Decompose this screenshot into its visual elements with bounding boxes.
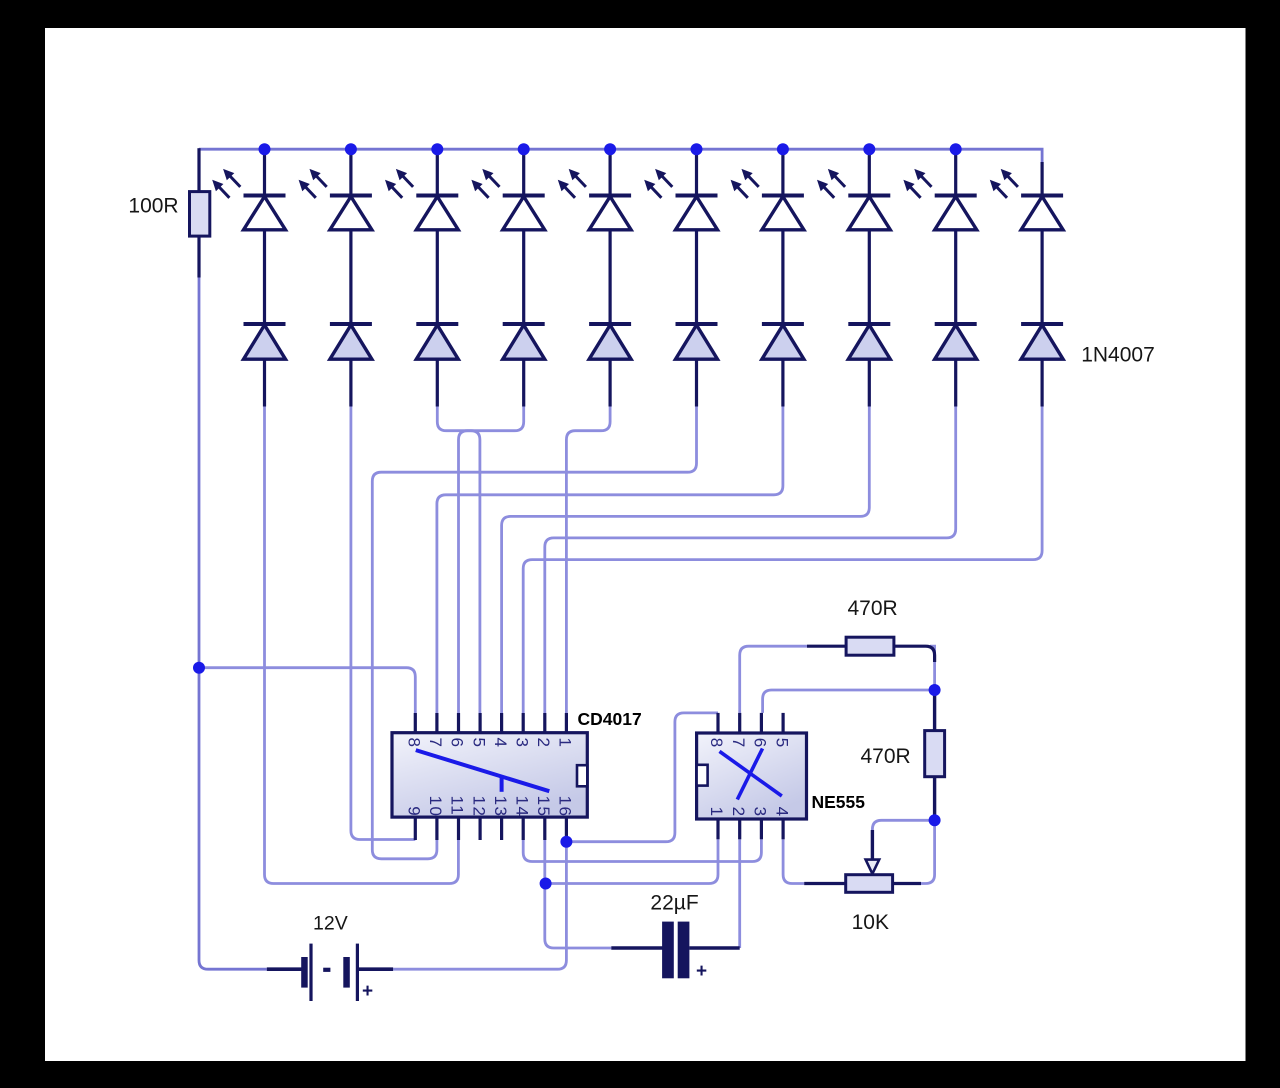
CD4017 pin 14 (522, 817, 525, 840)
battery BT1 12V (301, 944, 359, 1001)
wire D7 cathode to CD4017 pin 7 (437, 406, 783, 713)
CD4017 pin 15 (543, 817, 546, 840)
diode D4 1N4007 (503, 324, 545, 359)
svg-text:13: 13 (491, 796, 510, 818)
NE555 pin 2 (738, 819, 741, 839)
resistor R3 470R (925, 731, 945, 777)
wire R2 to node A (930, 646, 935, 690)
CD4017 pin 12 (479, 817, 482, 840)
wire pot right lead (893, 882, 921, 885)
svg-text:11: 11 (448, 796, 467, 817)
node dot 7 (777, 143, 789, 155)
wire LED4 cathode to D4 (522, 230, 525, 324)
svg-text:4: 4 (772, 807, 791, 818)
LED D1 (244, 196, 286, 230)
wire CD4017 pin 14 to NE555 pin 3 (523, 839, 761, 861)
CD4017 pin 3 (522, 713, 525, 733)
svg-text:NE555: NE555 (812, 792, 866, 812)
wire LED5 cathode to D5 (608, 230, 611, 324)
CD4017 notch (577, 765, 587, 786)
svg-text:12V: 12V (313, 913, 348, 935)
NE555 pin 4 (781, 819, 784, 839)
wire D8 lead (868, 359, 871, 406)
wire CD4017 pin 15 to capacitor (545, 840, 612, 948)
node dot 5 (604, 143, 616, 155)
NE555 internal graphic (720, 749, 782, 800)
svg-text:2: 2 (729, 807, 748, 818)
wire ground rail to CD4017 pin 8 (199, 668, 415, 713)
pot wiper arrow (866, 860, 880, 874)
wire D9 cathode to CD4017 pin 2 (545, 406, 956, 713)
LED D6 (676, 196, 718, 230)
CD4017 pin 7 (435, 713, 438, 733)
NE555 pin 6 (760, 713, 763, 733)
wire D4 lead (522, 359, 525, 406)
svg-text:2: 2 (534, 738, 553, 749)
wire R2 right lead (894, 646, 935, 662)
wire D2 lead (349, 359, 352, 406)
wire LED9 anode lead (954, 149, 957, 195)
CD4017 pin 5 (479, 713, 482, 733)
wire D6 cathode to CD4017 pin 10 (372, 406, 696, 859)
node dot 8 (863, 143, 875, 155)
node dot 12 (540, 878, 552, 890)
wire D8 cathode to CD4017 pin 4 (502, 406, 870, 713)
diode D6 1N4007 (676, 324, 718, 359)
svg-text:16: 16 (556, 796, 575, 818)
wire battery right lead (357, 967, 393, 971)
svg-text:100R: 100R (128, 195, 178, 218)
LED D4 (503, 196, 545, 230)
svg-text:10K: 10K (852, 911, 889, 934)
svg-text:12: 12 (469, 796, 488, 818)
wire D1 cathode to CD4017 pin 11 (265, 406, 459, 884)
svg-text:14: 14 (512, 796, 531, 818)
svg-text:1: 1 (556, 738, 575, 749)
wire LED10 cathode to D10 (1040, 230, 1043, 324)
wire D4 cathode to CD4017 pin 6 (459, 406, 524, 713)
wire D2 cathode to CD4017 pin 9 (351, 406, 415, 840)
wire pot left lead (804, 882, 846, 885)
svg-text:8: 8 (405, 738, 424, 749)
svg-text:15: 15 (534, 796, 553, 818)
wire D7 lead (781, 359, 784, 406)
svg-text:3: 3 (751, 807, 770, 818)
wire R1 bottom lead (197, 236, 200, 277)
wire left negative rail (199, 278, 267, 970)
wire D10 cathode to CD4017 pin 3 (523, 406, 1042, 713)
CD4017 pin 1 (565, 713, 568, 733)
LED D7 (762, 196, 804, 230)
wire CD4017 pin 16 to NE555 pin 8 (566, 713, 718, 842)
diode D8 1N4007 (848, 324, 890, 359)
wire LED5 anode lead (608, 149, 611, 195)
svg-text:CD4017: CD4017 (578, 709, 642, 729)
node dot 4 (518, 143, 530, 155)
wire D5 cathode to CD4017 pin 1 (566, 406, 610, 713)
node dot 11 (560, 836, 572, 848)
wire D3 cathode to CD4017 pin 5 (437, 406, 480, 713)
diode D5 1N4007 (589, 324, 631, 359)
diode D2 1N4007 (330, 324, 372, 359)
wire pot wiper lead (871, 830, 874, 860)
NE555 pin 8 (716, 713, 719, 733)
node dot 6 (691, 143, 703, 155)
LED D10 (1021, 196, 1063, 230)
op NE555 U2 body (697, 733, 807, 819)
svg-text:470R: 470R (861, 745, 911, 768)
node dot 13 (929, 684, 941, 696)
svg-text:6: 6 (751, 738, 770, 749)
CD4017 pin 11 (457, 817, 460, 840)
wire NE555 pin 4 to pot (783, 839, 804, 883)
svg-text:5: 5 (469, 738, 488, 749)
wire NE555 pin 1 ground (546, 839, 718, 883)
op CD4017 U1 body (392, 733, 587, 817)
diode D7 1N4007 (762, 324, 804, 359)
capacitor C1 22uF (662, 922, 674, 979)
wire LED6 cathode to D6 (695, 230, 698, 324)
wire C1 right lead (689, 946, 739, 950)
LED D9 (935, 196, 977, 230)
wire R3 bottom lead (933, 777, 936, 820)
node dot 9 (950, 143, 962, 155)
wire D1 lead (263, 359, 266, 406)
wire R3 top lead (933, 690, 936, 731)
wire R1 top lead (197, 148, 200, 191)
CD4017 internal graphic (416, 750, 550, 792)
wire LED7 anode lead (781, 149, 784, 195)
svg-text:+: + (362, 981, 373, 1002)
wire battery plus to pin 16 node (393, 842, 566, 970)
NE555 pin 7 (738, 713, 741, 733)
NE555 pin 1 (716, 819, 719, 839)
wire LED6 anode lead (695, 149, 698, 195)
NE555 notch (697, 765, 708, 786)
wire C1 left lead (611, 946, 663, 950)
CD4017 pin 16 (565, 817, 568, 840)
wire LED3 cathode to D3 (436, 230, 439, 324)
svg-text:5: 5 (772, 738, 791, 749)
CD4017 pin 13 (500, 817, 503, 840)
NE555 pin 3 (760, 819, 763, 839)
wire LED8 anode lead (868, 149, 871, 195)
wire LED10 anode lead (1040, 162, 1043, 196)
wire node A to NE555 pin 6 (763, 690, 935, 713)
svg-text:4: 4 (491, 738, 510, 749)
svg-text:9: 9 (405, 806, 424, 817)
wire D3 lead (436, 359, 439, 406)
LED D8 (848, 196, 890, 230)
wire R2 left lead (807, 645, 846, 648)
wire LED4 anode lead (522, 149, 525, 195)
wire D9 lead (954, 359, 957, 406)
node dot 10 (193, 662, 205, 674)
wire D5 lead (608, 359, 611, 406)
wire top supply bus (199, 149, 1042, 162)
svg-text:7: 7 (426, 738, 445, 749)
wire LED1 anode lead (263, 149, 266, 195)
wire LED8 cathode to D8 (868, 230, 871, 324)
svg-text:7: 7 (729, 738, 748, 749)
CD4017 pin 2 (543, 713, 546, 733)
node dot 2 (345, 143, 357, 155)
node dot 3 (431, 143, 443, 155)
CD4017 pin 9 (414, 817, 417, 840)
svg-text:1: 1 (707, 807, 726, 818)
wire LED9 cathode to D9 (954, 230, 957, 324)
CD4017 pin 6 (457, 713, 460, 733)
LED D2 (330, 196, 372, 230)
node dot 1 (259, 143, 271, 155)
diode D3 1N4007 (416, 324, 458, 359)
svg-text:+: + (696, 961, 707, 982)
wire LED1 cathode to D1 (263, 230, 266, 324)
svg-text:470R: 470R (848, 597, 898, 620)
diode D9 1N4007 (935, 324, 977, 359)
node dot 14 (929, 814, 941, 826)
CD4017 pin 10 (435, 817, 438, 840)
wire D10 lead (1040, 359, 1043, 406)
CD4017 pin 4 (500, 713, 503, 733)
LED D5 (589, 196, 631, 230)
wire LED2 cathode to D2 (349, 230, 352, 324)
wire LED3 anode lead (436, 149, 439, 195)
svg-text:1N4007: 1N4007 (1081, 344, 1155, 367)
LED D3 (416, 196, 458, 230)
potentiometer RV1 10K (846, 875, 893, 893)
wire LED2 anode lead (349, 149, 352, 195)
svg-text:10: 10 (426, 796, 445, 818)
resistor R1 100R (190, 192, 210, 237)
resistor R2 470R (846, 637, 894, 655)
wire NE555 pin 7 to 470R R2 (740, 646, 807, 713)
wire battery left lead (267, 967, 303, 971)
wire D6 lead (695, 359, 698, 406)
wire node B to pot wiper (872, 820, 934, 840)
NE555 pin 5 (781, 713, 784, 733)
svg-text:22µF: 22µF (650, 892, 698, 915)
diode D10 1N4007 (1021, 324, 1063, 359)
svg-text:3: 3 (512, 738, 531, 749)
svg-text:8: 8 (707, 738, 726, 749)
wire LED7 cathode to D7 (781, 230, 784, 324)
svg-text:6: 6 (448, 738, 467, 749)
diode D1 1N4007 (244, 324, 286, 359)
CD4017 pin 8 (414, 713, 417, 733)
wire node B to pot right (920, 820, 935, 883)
wire NE555 pin 2 to capacitor (738, 839, 741, 948)
